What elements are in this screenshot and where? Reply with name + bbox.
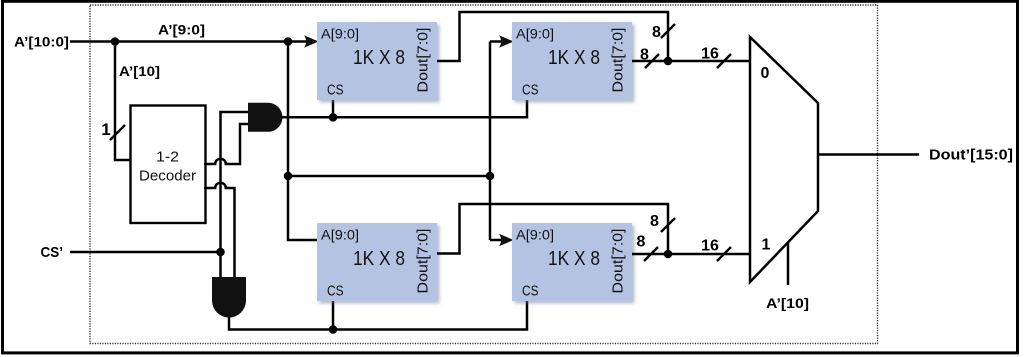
wire RAM2 Dout (632, 60, 668, 63)
mux M1 (750, 37, 818, 282)
svg-text:A[9:0]: A[9:0] (516, 27, 554, 42)
node J6 (284, 172, 293, 181)
svg-text:CS: CS (327, 284, 344, 300)
wire A bus distribution (288, 175, 490, 178)
wire CS' input (70, 251, 221, 254)
block body (512, 22, 632, 100)
RAM block U4 (bottom-left) (317, 223, 437, 301)
svg-text:Dout[7:0]: Dout[7:0] (611, 229, 627, 294)
AND gate G1 (248, 103, 282, 132)
node J4 RAM3 CS (329, 325, 338, 334)
svg-text:A’[10]: A’[10] (766, 295, 809, 311)
svg-text:A’[10]: A’[10] (119, 63, 160, 79)
block body (317, 22, 437, 100)
bus slash 16 (top) (717, 54, 731, 68)
bus slash 8 (RAM4 Dout) (644, 247, 658, 261)
AND gate G2 (212, 277, 246, 318)
svg-text:A’[9:0]: A’[9:0] (158, 22, 205, 38)
svg-text:CS: CS (522, 284, 539, 300)
svg-text:1: 1 (101, 120, 110, 139)
svg-text:Dout[7:0]: Dout[7:0] (416, 229, 432, 294)
bus slash 16 (bottom) (717, 247, 731, 261)
wire A'[10:0] input to RAM1 (70, 40, 307, 43)
RAM block U3 (top-right) (512, 22, 632, 100)
arrowhead into RAM2 (499, 35, 514, 48)
svg-text:8: 8 (640, 47, 649, 64)
wire decoder out1 to AND2 (with hop) (204, 183, 235, 277)
RAM block U2 (top-left) (317, 22, 437, 100)
bus slash 1-bit (110, 125, 125, 140)
svg-text:1-2: 1-2 (156, 149, 179, 166)
svg-text:8: 8 (650, 213, 659, 230)
svg-text:A[9:0]: A[9:0] (321, 228, 359, 243)
wire CS' to AND1 and AND2 (221, 112, 249, 277)
svg-text:0: 0 (761, 65, 770, 82)
node J8 (664, 57, 673, 66)
bus slash 8 (vertical bottom) (661, 218, 675, 232)
svg-text:1K X 8: 1K X 8 (548, 47, 600, 69)
wire decoder out0 to AND1 (with hop) (204, 124, 248, 164)
wire A bus to RAM2 and RAM4 (490, 42, 501, 241)
wire AND2 output CS bus to RAM3/RAM4 (229, 301, 527, 330)
svg-text:1: 1 (762, 237, 771, 254)
svg-text:8: 8 (652, 24, 661, 41)
node J5 (284, 37, 293, 46)
node J2 CS' junction (216, 248, 225, 257)
RAM block U5 (bottom-right) (512, 223, 632, 301)
svg-text:8: 8 (637, 234, 646, 251)
svg-text:A’[10:0]: A’[10:0] (14, 34, 69, 50)
node J9 (664, 250, 673, 259)
svg-text:Dout[7:0]: Dout[7:0] (611, 28, 627, 93)
node J7 (486, 172, 495, 181)
bus slash 8 (vertical top) (661, 24, 675, 38)
arrowhead into RAM4 (499, 234, 514, 247)
arrowhead into RAM1 (304, 35, 319, 48)
svg-text:CS: CS (327, 83, 344, 99)
svg-text:Decoder: Decoder (139, 168, 196, 185)
svg-text:1K X 8: 1K X 8 (353, 47, 405, 69)
block body (512, 223, 632, 301)
wire RAM4 Dout (632, 253, 668, 256)
decoder box U1 (131, 106, 206, 224)
svg-text:16: 16 (701, 46, 719, 63)
svg-text:A[9:0]: A[9:0] (321, 27, 359, 42)
svg-text:CS’: CS’ (41, 244, 64, 261)
wire A'[10] to decoder (115, 42, 130, 161)
wire 16-bit bus to mux in1 (668, 253, 750, 256)
wire 16-bit bus to mux in0 (668, 60, 750, 63)
dashed enclosure border (90, 5, 878, 344)
svg-text:Dout’[15:0]: Dout’[15:0] (929, 148, 1013, 164)
svg-text:CS: CS (522, 83, 539, 99)
wire AND1 output CS bus to RAM1/RAM2 (281, 100, 527, 117)
svg-text:1K X 8: 1K X 8 (353, 248, 405, 270)
svg-text:A[9:0]: A[9:0] (516, 228, 554, 243)
svg-text:Dout[7:0]: Dout[7:0] (416, 28, 432, 93)
node J3 RAM1 CS (329, 113, 338, 122)
wire RAM1 Dout route over top (437, 12, 668, 61)
wire mux output (818, 153, 919, 156)
wire RAM3 Dout route (437, 204, 668, 254)
bus slash 8 (RAM2 Dout) (645, 54, 659, 68)
wire RAM3 CS stub (332, 301, 335, 330)
node J1 on A bus (111, 37, 120, 46)
svg-text:16: 16 (701, 238, 719, 255)
svg-text:1K X 8: 1K X 8 (548, 248, 600, 270)
block body (317, 223, 437, 301)
wire A'[9:0] branch to RAM3 (288, 42, 317, 241)
wire mux select A'[10] (787, 243, 790, 285)
wire RAM1 CS stub (332, 100, 335, 117)
